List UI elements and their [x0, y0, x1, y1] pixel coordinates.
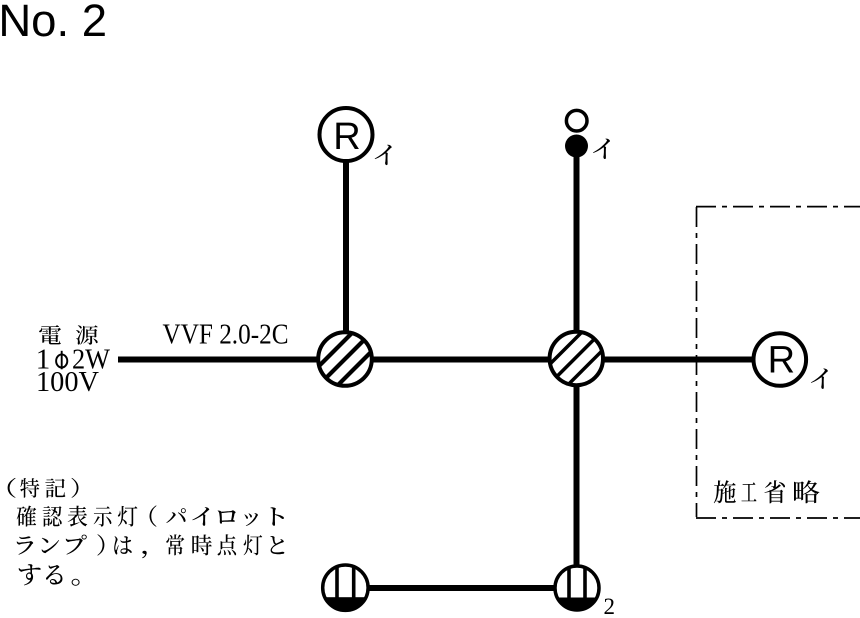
wire: outlet 1 to outlet 2: [368, 585, 556, 591]
note line する。: [19, 564, 80, 586]
wire: junction box B to outlet 2: [574, 384, 580, 566]
svg-text:VVF 2.0-2C: VVF 2.0-2C: [163, 320, 289, 351]
wire: junction box B to lamp R2: [603, 357, 754, 363]
wire: source feed to junction box A: [118, 357, 320, 363]
title No. 2: [0, 0, 107, 46]
note (特記): [8, 478, 79, 498]
lamp R1 (receptacle イ): [320, 108, 373, 161]
dash-dot boundary box 施工省略: [696, 207, 860, 518]
note line 確認表示灯（パイロット: [17, 505, 284, 526]
source label 1φ2W: [36, 344, 111, 376]
svg-text:100V: 100V: [36, 366, 99, 398]
junction box B: [537, 319, 614, 396]
label イ for lamp R1: [375, 145, 392, 165]
label 2 for outlet 2: [604, 594, 616, 618]
outlet 1 (left, with pilot lamp): [322, 562, 369, 613]
label 施工省略: [714, 480, 820, 503]
lamp R2 (receptacle イ, in omitted section): [754, 333, 807, 386]
source label 100V: [36, 366, 99, 398]
svg-text:R: R: [768, 340, 795, 382]
svg-text:No. 2: No. 2: [0, 0, 107, 46]
outlet 2 (right, double): [554, 563, 600, 614]
wire: ceiling light to junction box B: [574, 154, 580, 333]
wire: junction box A to junction box B: [370, 357, 550, 363]
wire: lamp R1 to junction box A: [343, 160, 349, 334]
label イ for ceiling light: [593, 139, 610, 159]
label イ for lamp R2: [811, 369, 828, 389]
cable label VVF 2.0-2C: [163, 320, 289, 351]
svg-text:R: R: [333, 116, 360, 158]
source label 電源: [39, 325, 98, 345]
note line ランプ）は，常時点灯と: [17, 534, 285, 558]
svg-text:2: 2: [604, 594, 616, 618]
ceiling light fixture (引掛シーリング): [565, 110, 588, 157]
junction box A: [307, 321, 384, 398]
